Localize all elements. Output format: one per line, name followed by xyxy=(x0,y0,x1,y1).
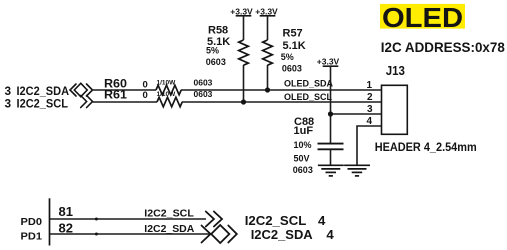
junction on I2C2_SCL xyxy=(95,218,98,221)
label R58 xyxy=(206,25,230,67)
node I2C2_SDA sheet-3 label xyxy=(5,84,70,98)
wire OLED_SDA right segment to J13 pin1 xyxy=(181,89,382,91)
label I2C2_SDA 4 xyxy=(251,227,335,242)
IC edge (MCU) xyxy=(49,198,51,245)
svg-text:HEADER 4_2.54mm: HEADER 4_2.54mm xyxy=(375,140,477,154)
junction +3.3V/C88/pin3 xyxy=(328,111,333,116)
svg-text:0603: 0603 xyxy=(206,57,226,67)
svg-text:J13: J13 xyxy=(386,63,405,78)
svg-text:5%: 5% xyxy=(281,52,294,62)
svg-text:0603: 0603 xyxy=(194,77,213,87)
svg-text:0603: 0603 xyxy=(282,64,302,74)
svg-text:4: 4 xyxy=(366,116,372,127)
power +3.3V symbol over R58 xyxy=(230,7,253,41)
resistor R57 (pull-up) xyxy=(263,40,273,65)
svg-text:0603: 0603 xyxy=(293,165,313,175)
svg-text:OLED_SDA: OLED_SDA xyxy=(284,79,334,89)
power +3.3V symbol at J13 pin3 xyxy=(317,57,340,143)
svg-text:81: 81 xyxy=(59,204,73,219)
svg-text:I2C ADDRESS:0x78: I2C ADDRESS:0x78 xyxy=(381,39,505,55)
ground under C88 xyxy=(318,165,344,176)
title OLED (yellow highlight) xyxy=(380,2,465,33)
svg-text:4: 4 xyxy=(318,213,326,228)
power +3.3V symbol over R57 xyxy=(255,7,278,41)
svg-text:OLED_SCL: OLED_SCL xyxy=(284,92,333,102)
svg-text:82: 82 xyxy=(59,220,73,235)
connector J13 body xyxy=(382,85,408,134)
svg-text:1: 1 xyxy=(366,80,372,91)
svg-text:+3.3V: +3.3V xyxy=(317,57,340,67)
svg-text:PD1: PD1 xyxy=(21,230,43,242)
node I2C2_SCL sheet-3 label xyxy=(5,97,69,111)
wire J13 pin3 to +3.3V xyxy=(331,113,382,115)
wire I2C2_SDA (bottom) xyxy=(50,233,211,235)
svg-text:OLED: OLED xyxy=(382,2,463,33)
label R60 xyxy=(104,77,213,91)
svg-text:0: 0 xyxy=(143,80,148,91)
svg-text:R58: R58 xyxy=(208,25,228,37)
svg-text:R57: R57 xyxy=(283,28,303,40)
resistor R60 (0 ohm, in line) xyxy=(156,85,181,95)
svg-text:0: 0 xyxy=(143,90,148,101)
label R57 xyxy=(281,28,306,74)
off-page connector I2C2_SDA (left, diamond) xyxy=(70,83,93,96)
label R61 xyxy=(104,88,213,102)
svg-text:0603: 0603 xyxy=(194,89,213,99)
wire OLED_SDA left segment xyxy=(93,89,157,91)
wire OLED_SCL right segment to J13 pin2 xyxy=(182,101,382,103)
junction R57/OLED_SDA xyxy=(265,87,270,92)
svg-text:3: 3 xyxy=(5,97,12,111)
svg-text:R61: R61 xyxy=(104,88,127,102)
svg-text:I2C2_SCL: I2C2_SCL xyxy=(17,97,69,111)
junction on I2C2_SDA xyxy=(95,233,98,236)
capacitor C88 xyxy=(318,144,344,166)
svg-text:1uF: 1uF xyxy=(294,125,314,137)
off-page connector I2C2_SCL (left, double chevron) xyxy=(81,96,93,108)
off-page connector I2C2_SDA (right, diamond) xyxy=(202,225,237,243)
svg-text:PD0: PD0 xyxy=(21,216,43,228)
svg-text:10%: 10% xyxy=(294,140,312,150)
wire J13 pin4 to ground xyxy=(357,126,382,165)
wire R58 bottom to OLED_SCL xyxy=(243,65,245,102)
svg-text:I2C2_SDA: I2C2_SDA xyxy=(144,224,194,235)
ground under J13 pin4 xyxy=(344,165,370,176)
wire I2C2_SCL (bottom) xyxy=(50,218,207,220)
resistor R61 (0 ohm, in line) xyxy=(157,97,182,107)
off-page connector I2C2_SCL (right, double chevron) xyxy=(206,212,222,227)
svg-text:4: 4 xyxy=(326,227,334,242)
svg-text:1/10W: 1/10W xyxy=(157,91,177,98)
junction R58/OLED_SCL xyxy=(241,99,246,104)
svg-text:1/10W: 1/10W xyxy=(157,80,177,87)
wire OLED_SCL left segment xyxy=(93,101,158,103)
svg-text:I2C2_SDA: I2C2_SDA xyxy=(251,227,313,242)
svg-text:5%: 5% xyxy=(206,46,219,56)
svg-text:5.1K: 5.1K xyxy=(283,40,306,52)
resistor R58 (pull-up) xyxy=(239,40,249,65)
svg-text:I2C2_SCL: I2C2_SCL xyxy=(245,213,307,228)
svg-text:50V: 50V xyxy=(294,154,310,164)
svg-text:I2C2_SCL: I2C2_SCL xyxy=(144,209,194,220)
wire R57 bottom to OLED_SDA xyxy=(267,65,269,90)
svg-text:3: 3 xyxy=(367,104,373,115)
svg-text:2: 2 xyxy=(367,92,373,103)
label C88 xyxy=(293,116,314,175)
label I2C2_SCL 4 xyxy=(245,213,326,228)
